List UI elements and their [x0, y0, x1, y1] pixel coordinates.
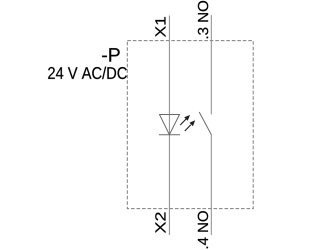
- terminal label .3 NO: [198, 1, 208, 38]
- label 24 V AC/DC: [48, 67, 127, 79]
- NO contact switch blade: [199, 112, 211, 135]
- terminal label X1: [155, 17, 165, 37]
- LED emission arrow 1: [180, 115, 190, 125]
- wire: left branch vertical X1-X2 through LED: [168, 16, 170, 236]
- terminal label X2: [155, 212, 165, 233]
- terminal label .4 NO: [198, 211, 208, 248]
- label -P: [102, 48, 120, 61]
- LED diode triangle: [160, 115, 180, 135]
- LED cathode bar: [159, 134, 180, 136]
- dashed enclosure box: [127, 41, 253, 209]
- wire: right branch upper vertical to NO contact: [210, 15, 212, 114]
- LED emission arrow 2: [185, 120, 195, 131]
- wire: right branch lower vertical from NO contact: [210, 135, 212, 235]
